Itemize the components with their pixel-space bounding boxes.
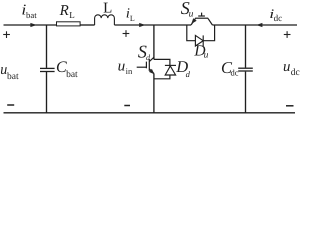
- wire S_d branch upper vertical: [153, 25, 155, 59]
- resistor R_L: [57, 22, 81, 26]
- capacitor C_bat: [40, 68, 55, 71]
- svg-text:bat: bat: [66, 70, 78, 80]
- plus u_bat: [3, 31, 10, 38]
- minus u_in: [124, 105, 130, 107]
- svg-text:L: L: [130, 14, 135, 23]
- diode D_u: [195, 35, 203, 46]
- wire bottom rail: [4, 112, 296, 114]
- svg-text:bat: bat: [7, 72, 19, 82]
- minus u_bat: [7, 104, 14, 106]
- wire top rail right segment: [212, 24, 297, 26]
- svg-text:u: u: [189, 9, 194, 19]
- svg-text:dc: dc: [291, 68, 300, 78]
- plus u_in: [123, 30, 130, 37]
- transistor S_u (upper IGBT): [191, 13, 212, 25]
- wire S_d branch lower vertical: [153, 73, 155, 112]
- arrow i_dc: [256, 23, 262, 27]
- svg-text:dc: dc: [274, 13, 283, 23]
- capacitor C_dc: [238, 68, 253, 71]
- svg-text:in: in: [126, 66, 133, 76]
- svg-text:d: d: [186, 69, 191, 79]
- inductor L: [95, 15, 115, 25]
- svg-text:R: R: [59, 3, 69, 19]
- diode D_d: [165, 65, 176, 75]
- svg-text:bat: bat: [26, 10, 37, 20]
- svg-text:u: u: [283, 59, 290, 75]
- svg-text:L: L: [69, 10, 75, 20]
- svg-text:u: u: [118, 58, 126, 74]
- wire top rail inductor to upper IGBT: [114, 24, 191, 26]
- wire top rail between resistor and inductor: [80, 24, 95, 26]
- svg-text:u: u: [204, 51, 209, 61]
- svg-text:L: L: [103, 0, 112, 16]
- minus u_dc: [286, 105, 294, 107]
- wire C_dc branch vertical: [245, 25, 247, 68]
- wire D_u loop: [187, 25, 215, 41]
- arrow i_L: [139, 23, 145, 27]
- transistor S_u emitter arrow: [191, 18, 196, 24]
- wire top rail left segment: [4, 24, 57, 26]
- arrow i_bat: [30, 23, 36, 27]
- wire D_d loop: [154, 59, 170, 78]
- transistor S_d (lower IGBT): [137, 57, 154, 73]
- wire C_bat branch vertical: [46, 25, 48, 68]
- plus u_dc: [284, 31, 291, 38]
- transistor S_d emitter arrow: [149, 69, 154, 74]
- svg-text:dc: dc: [231, 68, 239, 78]
